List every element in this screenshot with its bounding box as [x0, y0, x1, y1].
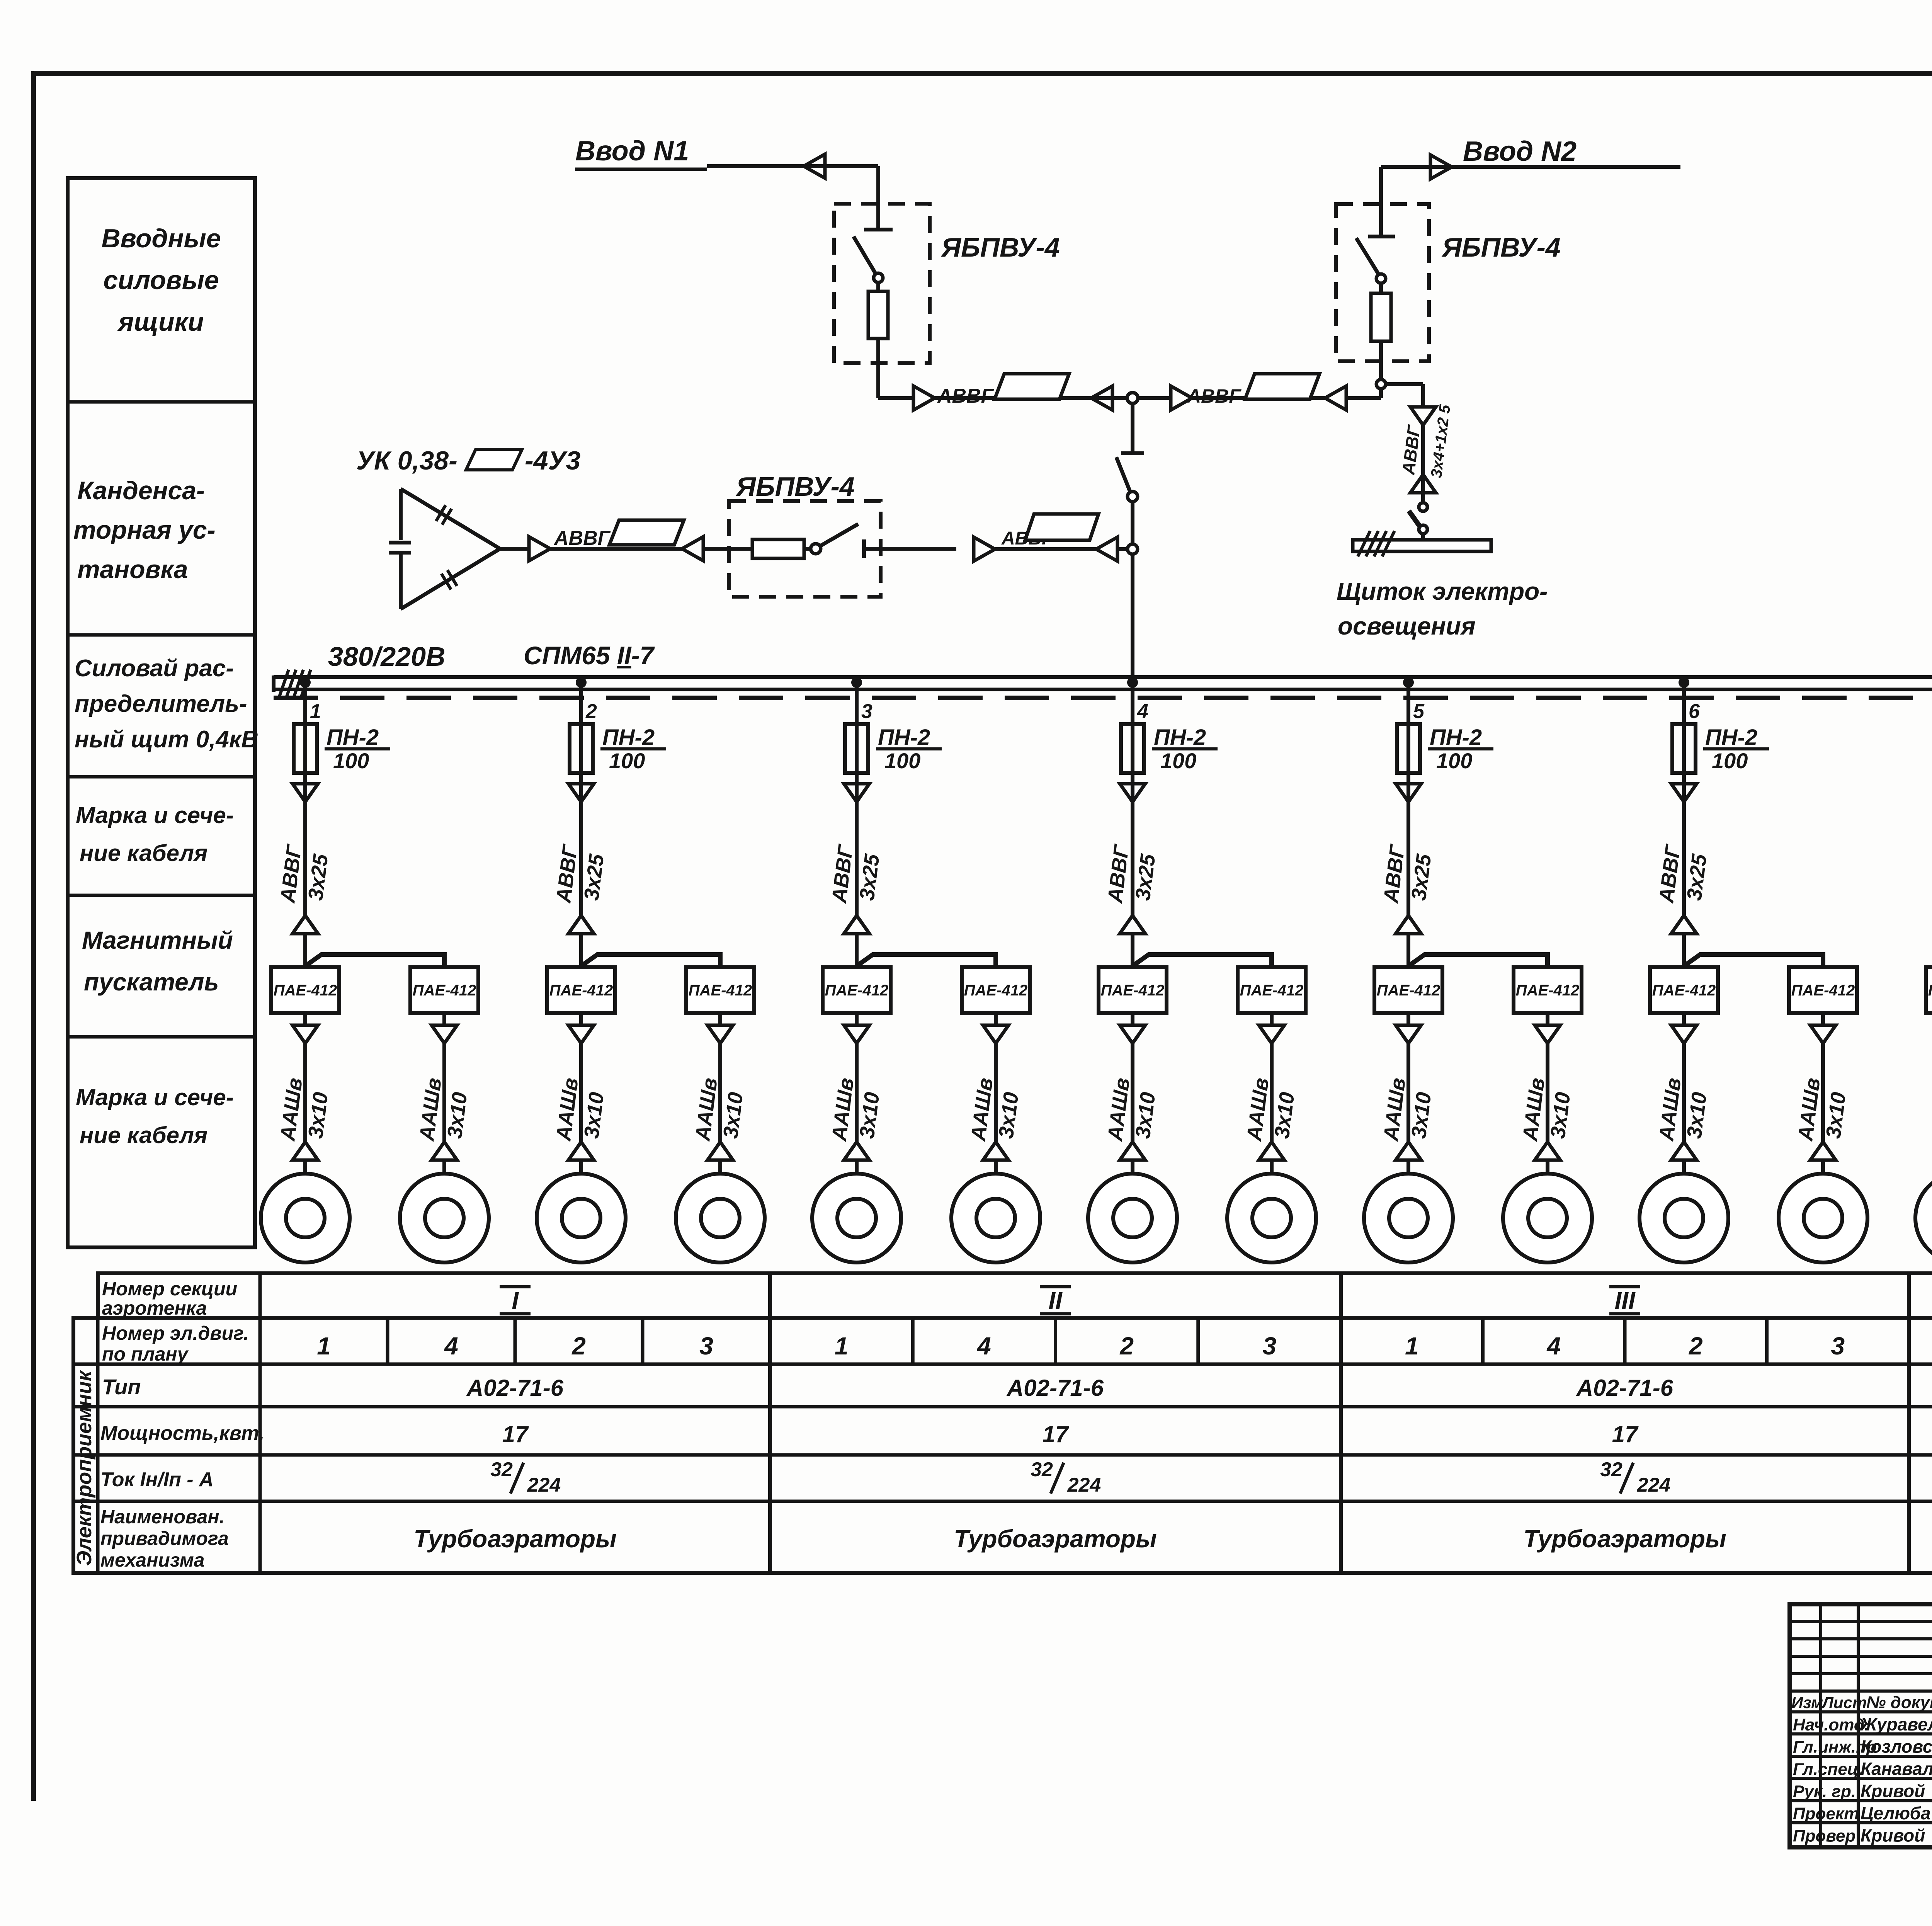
svg-text:ПАЕ-412: ПАЕ-412 — [1101, 982, 1164, 999]
svg-text:ПАЕ-412: ПАЕ-412 — [1791, 982, 1855, 999]
svg-text:ПАЕ-412: ПАЕ-412 — [689, 982, 752, 999]
wire cable to starter K3A — [855, 935, 859, 967]
motor M1B (turbo-aerator) — [400, 1174, 489, 1262]
cable ААШв 3х10 arrowhead down (feeder 3B) — [983, 1025, 1009, 1043]
svg-text:ПАЕ-412: ПАЕ-412 — [274, 982, 337, 999]
svg-text:Щиток электро-: Щиток электро- — [1337, 577, 1548, 605]
svg-text:3х25: 3х25 — [304, 852, 332, 902]
motor cell divider section III — [1481, 1318, 1485, 1364]
cable ААШв 3х10 arrowhead down (feeder 5A) — [1396, 1025, 1421, 1043]
motor cell divider section II — [1054, 1318, 1057, 1364]
svg-text:ние кабеля: ние кабеля — [80, 1122, 207, 1148]
wire feeder 4 busbar to fuse — [1131, 682, 1134, 784]
wire cable ААШв 3х10 (feeder 3B) — [994, 1043, 998, 1142]
cable arrowhead up (feeder 3A) — [844, 1142, 869, 1160]
fuse F6 ПН-2/100 — [1672, 724, 1696, 773]
svg-text:Вводные: Вводные — [101, 224, 221, 253]
svg-text:17: 17 — [1043, 1421, 1069, 1447]
svg-text:Целюба: Целюба — [1861, 1803, 1931, 1823]
bottom table: column lines — [96, 1318, 100, 1573]
svg-text:3х25: 3х25 — [1407, 852, 1435, 902]
svg-text:Номер секции: Номер секции — [102, 1278, 237, 1300]
bottom table: horizontal lines — [73, 1363, 1932, 1366]
svg-text:Наименован.: Наименован. — [100, 1506, 224, 1528]
capacitor feeder box U3 ЯБПВУ-4 (dashed enclosure) — [729, 501, 881, 597]
svg-text:100: 100 — [609, 749, 645, 773]
svg-text:ААШв: ААШв — [415, 1077, 446, 1143]
svg-text:1: 1 — [317, 1332, 331, 1360]
svg-text:ние кабеля: ние кабеля — [80, 840, 207, 866]
motor M2B (turbo-aerator) — [676, 1174, 765, 1262]
svg-text:-4У3: -4У3 — [525, 446, 581, 475]
cable arrowhead up (feeder 4) — [1120, 915, 1145, 934]
svg-text:Канавалова: Канавалова — [1861, 1759, 1932, 1779]
wire cable АВВГ 3х25 (feeder 1) — [303, 784, 307, 915]
svg-text:3х10: 3х10 — [1407, 1091, 1435, 1140]
junction dot feeder 2 on busbar — [576, 677, 587, 688]
svg-text:1: 1 — [1405, 1332, 1419, 1360]
svg-text:ящики: ящики — [117, 307, 204, 337]
svg-text:ПАЕ-412: ПАЕ-412 — [1928, 982, 1932, 999]
wire starter K6B to cable — [1821, 1013, 1825, 1025]
svg-text:АВВГ: АВВГ — [1655, 842, 1685, 905]
svg-text:АВВГ: АВВГ — [1930, 842, 1932, 905]
svg-text:224: 224 — [1067, 1474, 1101, 1496]
svg-text:ПН-2: ПН-2 — [1154, 725, 1206, 750]
branch wire to starter K6B — [1685, 954, 1823, 967]
svg-text:Канденса-: Канденса- — [77, 476, 205, 505]
cable ААШв 3х10 arrowhead down (feeder 6B) — [1810, 1025, 1836, 1043]
fuse F2 ПН-2/100 — [570, 724, 593, 773]
svg-text:Турбоаэраторы: Турбоаэраторы — [1523, 1525, 1726, 1553]
svg-text:3х10: 3х10 — [719, 1091, 747, 1140]
switch hinge circle (U3) — [811, 544, 821, 554]
svg-text:100: 100 — [333, 749, 369, 773]
motor M3B (turbo-aerator) — [951, 1174, 1040, 1262]
cable arrowhead up (feeder 2A) — [568, 1142, 594, 1160]
cable АВВГ 3х25 arrowhead down (feeder 1) — [293, 784, 318, 802]
motor M2A (turbo-aerator) — [537, 1174, 626, 1262]
node B junction circle (capacitor tie-in) — [1128, 544, 1138, 554]
wire lighting cable — [1421, 425, 1425, 502]
cable ААШв 3х10 arrowhead down (feeder 1A) — [293, 1025, 318, 1043]
wire main switch to node B — [1131, 502, 1134, 544]
wire starter K2A to cable — [579, 1013, 583, 1025]
magnetic starter K2B ПАЕ-412 — [686, 967, 754, 1013]
cable arrowhead up (feeder 5) — [1396, 915, 1421, 934]
svg-text:100: 100 — [1436, 749, 1472, 773]
svg-text:ААШв: ААШв — [276, 1077, 307, 1143]
svg-text:4: 4 — [976, 1332, 991, 1360]
svg-text:100: 100 — [1160, 749, 1196, 773]
wire node B to busbar — [1131, 554, 1134, 682]
svg-text:Рук. гр.: Рук. гр. — [1793, 1782, 1856, 1801]
cable АВВГ 3х25 arrowhead down (feeder 4) — [1120, 784, 1145, 802]
cable arrowhead left (capacitor cable 1) — [682, 537, 703, 561]
svg-text:ПН-2: ПН-2 — [602, 725, 655, 750]
svg-text:Нач.отд.: Нач.отд. — [1793, 1715, 1869, 1734]
svg-text:А02-71-6: А02-71-6 — [466, 1375, 564, 1401]
svg-text:силовые: силовые — [103, 265, 219, 295]
svg-text:ААШв: ААШв — [827, 1077, 858, 1143]
wire cable ААШв 3х10 (feeder 2B) — [718, 1043, 722, 1142]
wire cable ААШв 3х10 (feeder 1B) — [442, 1043, 446, 1142]
wire cable to starter K5A — [1406, 935, 1410, 967]
wire Ввод №1 to ЯБПВУ-4 box 1 — [707, 164, 878, 168]
magnetic starter K5B ПАЕ-412 — [1514, 967, 1582, 1013]
wire starter K3A to cable — [855, 1013, 859, 1025]
svg-text:Турбоаэраторы: Турбоаэраторы — [954, 1525, 1156, 1553]
wire starter K4A to cable — [1131, 1013, 1134, 1025]
cable АВВГ 3х4+1х2,5 arrowhead down — [1410, 407, 1436, 425]
cable size frame (segment 1) — [995, 374, 1069, 399]
magnetic starter K2A ПАЕ-412 — [547, 967, 615, 1013]
motor cell divider section II — [911, 1318, 915, 1364]
switch inside U1: hinge circle — [874, 273, 883, 282]
cable size frame (capacitor cable 1) — [609, 520, 684, 545]
busbar СПМ65 (double line) — [274, 675, 1932, 679]
svg-text:3х25: 3х25 — [580, 852, 608, 902]
cable size frame (segment 2) — [1245, 374, 1320, 399]
svg-text:ПН-2: ПН-2 — [1705, 725, 1757, 750]
cable ААШв 3х10 arrowhead down (feeder 3A) — [844, 1025, 869, 1043]
switch blade (U3) — [821, 524, 858, 546]
branch wire to starter K2B — [583, 954, 720, 967]
wire U1 fuse to cable corner — [876, 339, 880, 398]
cable arrowhead up (feeder 5B) — [1535, 1142, 1560, 1160]
svg-text:17: 17 — [502, 1421, 529, 1447]
svg-text:3х10: 3х10 — [304, 1091, 332, 1140]
left heading column frame — [68, 178, 255, 1247]
svg-text:ЯБПВУ-4: ЯБПВУ-4 — [1441, 232, 1561, 262]
wire feeder 5 busbar to fuse — [1406, 682, 1410, 784]
title block outer frame — [1790, 1604, 1932, 1847]
svg-text:привадимога: привадимога — [100, 1528, 229, 1549]
branch wire to starter K4B — [1134, 954, 1272, 967]
svg-text:5: 5 — [1413, 700, 1425, 723]
cable arrowhead up (feeder 3) — [844, 915, 869, 934]
title block revision grid horizontals — [1790, 1620, 1932, 1623]
input box U2 ЯБПВУ-4 (dashed enclosure) — [1336, 204, 1429, 361]
svg-text:3х10: 3х10 — [855, 1091, 884, 1140]
svg-text:3: 3 — [1831, 1332, 1845, 1360]
svg-text:ААШв: ААШв — [691, 1077, 722, 1143]
svg-text:II: II — [1048, 1287, 1063, 1315]
svg-text:3х10: 3х10 — [443, 1091, 471, 1140]
svg-text:Лист: Лист — [1821, 1693, 1867, 1712]
fuse F5 ПН-2/100 — [1397, 724, 1420, 773]
svg-text:ПН-2: ПН-2 — [1430, 725, 1482, 750]
main switch hinge circle — [1128, 492, 1138, 502]
wire cable ААШв 3х10 (feeder 2A) — [579, 1043, 583, 1142]
cable ААШв 3х10 arrowhead down (feeder 1B) — [432, 1025, 457, 1043]
svg-text:ЯБПВУ-4: ЯБПВУ-4 — [735, 471, 855, 502]
cable arrowhead up (feeder 6B) — [1810, 1142, 1836, 1160]
wire starter K1B to cable — [442, 1013, 446, 1025]
svg-text:Тип: Тип — [102, 1375, 141, 1399]
cable arrowhead up (feeder 4B) — [1259, 1142, 1284, 1160]
svg-text:4: 4 — [444, 1332, 458, 1360]
svg-text:2: 2 — [571, 1332, 586, 1360]
node A junction circle — [1127, 393, 1138, 403]
wire switch to fuse (U2) — [1379, 283, 1383, 293]
input box U1 ЯБПВУ-4 (dashed enclosure) — [834, 204, 930, 363]
junction dot feeder 4 on busbar — [1127, 677, 1138, 688]
drawing sheet left border — [31, 71, 36, 1801]
svg-text:3х10: 3х10 — [580, 1091, 608, 1140]
svg-text:I: I — [512, 1287, 519, 1315]
motor M7A (turbo-aerator) — [1915, 1174, 1932, 1262]
svg-text:УК 0,38-: УК 0,38- — [356, 446, 457, 475]
magnetic starter K6A ПАЕ-412 — [1650, 967, 1718, 1013]
svg-text:ПН-2: ПН-2 — [878, 725, 930, 750]
wire feeder 2 busbar to fuse — [579, 682, 583, 784]
svg-text:А02-71-6: А02-71-6 — [1576, 1375, 1673, 1401]
svg-text:2: 2 — [585, 700, 597, 723]
wire node A to U2 drop — [1138, 396, 1171, 400]
wire feeder 1 busbar to fuse — [303, 682, 307, 784]
svg-text:по плану: по плану — [102, 1343, 189, 1365]
svg-text:1: 1 — [310, 700, 321, 723]
wire cable to starter K4A — [1131, 935, 1134, 967]
wire cable АВВГ 3х25 (feeder 6) — [1682, 784, 1686, 915]
switch bottom circle (lighting) — [1419, 525, 1427, 534]
wire cable to starter K2A — [579, 935, 583, 967]
switch inside U2: hinge circle — [1376, 274, 1386, 283]
wire starter K4B to cable — [1270, 1013, 1274, 1025]
magnetic starter K1A ПАЕ-412 — [271, 967, 339, 1013]
drawing sheet top border — [34, 71, 1932, 76]
svg-text:3: 3 — [861, 700, 872, 723]
fuse inside U1 — [868, 291, 888, 339]
lighting panel bus — [1353, 540, 1491, 551]
svg-text:Кривой: Кривой — [1861, 1781, 1925, 1801]
cable ААШв 3х10 arrowhead down (feeder 6A) — [1671, 1025, 1697, 1043]
cable arrowhead up (lighting) — [1410, 475, 1436, 493]
switch to lighting panel: top circle — [1419, 503, 1427, 511]
svg-text:32: 32 — [1031, 1458, 1053, 1481]
svg-text:3х10: 3х10 — [1821, 1091, 1850, 1140]
svg-text:224: 224 — [1637, 1474, 1671, 1496]
svg-text:224: 224 — [527, 1474, 561, 1496]
svg-text:ПАЕ-412: ПАЕ-412 — [964, 982, 1027, 999]
fuse inside U3 (horizontal) — [752, 539, 804, 558]
svg-text:Ввод N2: Ввод N2 — [1463, 136, 1577, 167]
svg-text:ААШв: ААШв — [1794, 1077, 1825, 1143]
wire fuse to switch (U3) — [804, 547, 811, 551]
cable arrowhead up (feeder 1A) — [293, 1142, 318, 1160]
cable ААШв 3х10 arrowhead down (feeder 5B) — [1535, 1025, 1560, 1043]
fuse F4 ПН-2/100 — [1121, 724, 1144, 773]
svg-text:ААШв: ААШв — [1655, 1077, 1685, 1143]
magnetic starter K1B ПАЕ-412 — [410, 967, 478, 1013]
arrowhead on Ввод №1 line — [804, 154, 825, 178]
svg-text:ПАЕ-412: ПАЕ-412 — [549, 982, 613, 999]
svg-text:3х10: 3х10 — [1131, 1091, 1160, 1140]
svg-text:АВВГ: АВВГ — [276, 842, 306, 905]
wire cable ААШв 3х10 (feeder 1A) — [303, 1043, 307, 1142]
wire cable АВВГ 3х25 (feeder 3) — [855, 784, 859, 915]
wire U2 fuse down to node — [1379, 341, 1383, 379]
svg-text:Гл.спец.: Гл.спец. — [1793, 1760, 1863, 1779]
magnetic starter K5A ПАЕ-412 — [1374, 967, 1442, 1013]
wire U3 to cable 2 — [864, 547, 956, 551]
magnetic starter K3B ПАЕ-412 — [962, 967, 1030, 1013]
magnetic starter K4A ПАЕ-412 — [1099, 967, 1167, 1013]
cable АВВГ 3х25 arrowhead down (feeder 3) — [844, 784, 869, 802]
junction dot feeder 1 on busbar — [300, 677, 311, 688]
wire switch to fuse (U1) — [876, 282, 880, 291]
wire cable ААШв 3х10 (feeder 5A) — [1406, 1043, 1410, 1142]
svg-text:тановка: тановка — [77, 555, 188, 584]
cable АВВГ arrowhead (right) — [913, 386, 935, 410]
main switch fixed contact — [1121, 451, 1144, 455]
svg-text:ПАЕ-412: ПАЕ-412 — [1652, 982, 1716, 999]
wire node under U2 to lighting branch — [1386, 382, 1423, 386]
branch wire to starter K5B — [1410, 954, 1548, 967]
motor M4B (turbo-aerator) — [1227, 1174, 1316, 1262]
svg-text:освещения: освещения — [1338, 612, 1476, 640]
bottom table: outer frame — [98, 1273, 1932, 1318]
switch inside U1: blade — [854, 236, 876, 274]
svg-text:ААШв: ААШв — [966, 1077, 997, 1143]
switch blade (lighting) — [1409, 511, 1419, 526]
switch inside U1: fixed contact — [864, 228, 893, 231]
wire cable ААШв 3х10 (feeder 5B) — [1546, 1043, 1549, 1142]
cable ААШв 3х10 arrowhead down (feeder 2B) — [707, 1025, 733, 1043]
motor M5A (turbo-aerator) — [1364, 1174, 1453, 1262]
motor cell divider section I — [514, 1318, 517, 1364]
svg-text:Магнитный: Магнитный — [82, 926, 233, 954]
svg-text:торная ус-: торная ус- — [73, 516, 216, 544]
svg-text:2: 2 — [1689, 1332, 1703, 1360]
busbar section dashed line — [274, 696, 1932, 700]
switch inside U2: blade — [1356, 238, 1379, 274]
cable arrowhead right (capacitor cable 1) — [529, 537, 550, 561]
svg-text:3х10: 3х10 — [1682, 1091, 1711, 1140]
svg-text:АВВГ: АВВГ — [1103, 842, 1133, 905]
svg-text:СПМ65 II-7: СПМ65 II-7 — [524, 641, 655, 670]
svg-text:3х10: 3х10 — [1270, 1091, 1299, 1140]
wire starter K1A to cable — [303, 1013, 307, 1025]
svg-text:3х10: 3х10 — [1546, 1091, 1575, 1140]
svg-text:аэротенка: аэротенка — [102, 1297, 207, 1319]
branch wire to starter K1B — [307, 954, 444, 967]
svg-text:пределитель-: пределитель- — [75, 691, 247, 717]
switch inside U2: fixed contact — [1368, 235, 1395, 238]
junction dot feeder 5 on busbar — [1403, 677, 1414, 688]
svg-text:ПАЕ-412: ПАЕ-412 — [413, 982, 476, 999]
svg-text:ААШв: ААШв — [1242, 1077, 1273, 1143]
motor cell divider section III — [1765, 1318, 1769, 1364]
wire cable ААШв 3х10 (feeder 4A) — [1131, 1043, 1134, 1142]
svg-text:Проект: Проект — [1793, 1804, 1859, 1823]
motor M6B (turbo-aerator) — [1779, 1174, 1867, 1262]
cable arrowhead up (feeder 1B) — [432, 1142, 457, 1160]
cable size frame (capacitor cable 2) — [1025, 514, 1099, 540]
magnetic starter K4B ПАЕ-412 — [1238, 967, 1306, 1013]
cable arrowhead up (feeder 6) — [1671, 915, 1697, 934]
svg-text:Номер эл.двиг.: Номер эл.двиг. — [102, 1322, 249, 1344]
motor cell divider section I — [641, 1318, 645, 1364]
svg-text:32: 32 — [1600, 1458, 1622, 1481]
magnetic starter K7A ПАЕ-412 — [1926, 967, 1932, 1013]
cable arrowhead up (feeder 1) — [293, 915, 318, 934]
title block left verticals — [1819, 1604, 1822, 1847]
svg-text:380/220В: 380/220В — [328, 641, 446, 672]
svg-text:ААШв: ААШв — [1930, 1077, 1932, 1143]
motor M5B (turbo-aerator) — [1503, 1174, 1592, 1262]
svg-text:Силовай рас-: Силовай рас- — [75, 655, 234, 682]
hatch at busbar left end — [279, 670, 289, 699]
svg-text:Кривой: Кривой — [1861, 1826, 1925, 1846]
node circle under U2 — [1376, 379, 1386, 389]
wire feeder 3 busbar to fuse — [855, 682, 859, 784]
motor cell divider section I — [386, 1318, 389, 1364]
branch wire to starter K3B — [858, 954, 996, 967]
svg-text:Провер: Провер — [1793, 1827, 1855, 1846]
wire cable ААШв 3х10 (feeder 3A) — [855, 1043, 859, 1142]
cable АВВГ 3х25 arrowhead down (feeder 2) — [568, 784, 594, 802]
svg-text:Турбоаэраторы: Турбоаэраторы — [413, 1525, 616, 1553]
capacitor marks on upper edge — [436, 505, 451, 524]
wire starter K3B to cable — [994, 1013, 998, 1025]
cable arrowhead up (feeder 2) — [568, 915, 594, 934]
wire cable ААШв 3х10 (feeder 6B) — [1821, 1043, 1825, 1142]
svg-text:ААШв: ААШв — [552, 1077, 583, 1143]
cable arrowhead up (feeder 4A) — [1120, 1142, 1145, 1160]
wire cable to starter K1A — [303, 935, 307, 967]
svg-text:100: 100 — [884, 749, 920, 773]
cable АВВГ 3х25 arrowhead down (feeder 5) — [1396, 784, 1421, 802]
wire cable АВВГ 3х25 (feeder 4) — [1131, 784, 1134, 915]
fuse F1 ПН-2/100 — [294, 724, 317, 773]
hatch marks on lighting bus — [1358, 531, 1370, 556]
wire starter K6A to cable — [1682, 1013, 1686, 1025]
svg-text:АВВГ: АВВГ — [553, 527, 611, 550]
motor cell divider section III — [1623, 1318, 1627, 1364]
svg-text:4: 4 — [1546, 1332, 1561, 1360]
svg-text:III: III — [1614, 1287, 1636, 1315]
svg-text:3х25: 3х25 — [1131, 852, 1160, 902]
svg-text:А02-71-6: А02-71-6 — [1006, 1375, 1104, 1401]
wire cable to starter K6A — [1682, 935, 1686, 967]
cable arrowhead (left, segment 2) — [1325, 386, 1346, 410]
svg-text:Изм: Изм — [1791, 1693, 1823, 1712]
fuse F3 ПН-2/100 — [845, 724, 868, 773]
svg-text:17: 17 — [1612, 1421, 1639, 1447]
wire starter K5A to cable — [1406, 1013, 1410, 1025]
svg-text:ААШв: ААШв — [1379, 1077, 1410, 1143]
svg-text:1: 1 — [835, 1332, 849, 1360]
capacitor unit symbol (triangle) — [401, 489, 500, 549]
svg-text:3х25: 3х25 — [1682, 852, 1711, 902]
svg-text:АВВГ: АВВГ — [1379, 842, 1409, 905]
wire node A down to main switch — [1131, 403, 1134, 453]
wire cable ААШв 3х10 (feeder 6A) — [1682, 1043, 1686, 1142]
wire U1 to node A (horizontal) — [878, 396, 912, 400]
svg-text:32: 32 — [490, 1458, 513, 1481]
svg-text:Ток Iн/Iп - А: Ток Iн/Iп - А — [100, 1468, 214, 1491]
svg-text:ПАЕ-412: ПАЕ-412 — [1516, 982, 1579, 999]
cable АВВГ 3х25 arrowhead down (feeder 6) — [1671, 784, 1697, 802]
svg-text:Ввод N1: Ввод N1 — [575, 136, 689, 167]
capacitor marks on lower edge — [441, 570, 457, 589]
svg-text:3: 3 — [1263, 1332, 1277, 1360]
capacitor plates on left edge — [389, 541, 411, 544]
cable ААШв 3х10 arrowhead down (feeder 4A) — [1120, 1025, 1145, 1043]
wire cable ААШв 3х10 (feeder 4B) — [1270, 1043, 1274, 1142]
